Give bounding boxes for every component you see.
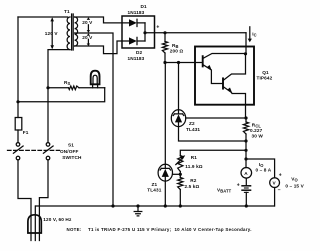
svg-text:F1: F1 [23,130,29,135]
120 V arrow annotation [51,19,53,48]
node rectifier output [143,31,146,34]
ammeter A [241,168,252,179]
lamp pilot light [93,84,98,88]
wire collector feed from rectifier [245,33,247,54]
wire right pole to plug [39,160,48,241]
wire D1/D2 to output node [144,23,146,41]
svg-text:TL431: TL431 [186,127,200,132]
svg-text:Z1: Z1 [152,182,158,187]
wire Z1 cathode drop [164,63,166,165]
svg-text:+: + [156,24,159,30]
svg-text:120 V, 60 Hz: 120 V, 60 Hz [43,217,72,222]
node R_S tap [46,86,49,89]
svg-text:0 – 8 A: 0 – 8 A [256,168,272,173]
svg-text:120 V: 120 V [45,31,59,36]
svg-text:T1 is TRIAD F-275 U 115 V Prim: T1 is TRIAD F-275 U 115 V Primary; 10 A/… [88,227,252,232]
fuse F1 [15,118,22,131]
battery V_BATT [241,185,251,187]
wire output node to R1 [180,150,246,155]
wire top AC line [18,16,68,18]
svg-text:−: − [278,187,281,193]
svg-text:D1: D1 [141,4,148,9]
wire Z2 ref to current sense node [186,117,246,119]
node voltmeter feed [244,157,247,160]
wire left pole to plug [18,160,31,241]
wire secondary top to rectifier [75,17,122,23]
switch S1 left pole [16,143,20,147]
node output + [244,139,247,142]
svg-text:Z2: Z2 [189,121,195,126]
transformer T1 secondary [75,17,78,46]
wire ammeter to battery [245,178,247,186]
svg-text:1N1183: 1N1183 [128,10,145,15]
svg-text:+: + [237,183,240,189]
ground symbol [136,204,139,207]
wire battery to rail [245,192,247,206]
svg-text:TIP642: TIP642 [257,75,273,80]
wire left AC vertical [17,17,19,118]
wire lamp loop return [18,88,105,102]
i_c arrow [249,27,251,40]
resistor R_B [164,33,166,42]
wire below fuse [17,130,19,143]
resistor R_CL [245,118,247,122]
svg-text:NOTE:: NOTE: [67,227,82,232]
svg-text:ON/OFF: ON/OFF [60,149,78,154]
wire rectifier output rail [145,32,246,34]
voltmeter V [270,178,280,188]
node R1 feed [244,149,247,152]
TL431 Z2 [171,110,185,127]
node base/R_B [163,61,166,64]
switch gang dashed link [8,149,60,151]
transistor Q1a [202,56,204,66]
resistor R2 [178,178,183,190]
svg-text:0.227: 0.227 [250,128,263,133]
plug ground prong and rail stub [34,206,36,241]
svg-text:D2: D2 [136,50,143,55]
rectifier box [122,16,155,48]
diode D2 [122,37,145,44]
transformer core [72,14,74,50]
svg-text:1N1183: 1N1183 [128,56,145,61]
wire Z1 ref to divider [173,173,181,175]
node battery/rail [245,204,248,207]
wire primary bottom [48,50,70,143]
svg-text:A: A [244,171,248,176]
node divider tap [179,173,182,176]
svg-text:R2: R2 [190,178,197,183]
20 V arrow upper [87,25,89,30]
node collector [244,52,247,55]
svg-text:20 V: 20 V [82,35,93,40]
svg-text:30 W: 30 W [252,134,264,139]
node center tap return [111,204,114,207]
svg-text:SWITCH: SWITCH [62,155,82,160]
wire center tap down to ground rail [75,33,113,206]
svg-text:T1: T1 [64,9,70,14]
svg-text:iC: iC [252,32,257,38]
svg-text:TL431: TL431 [147,187,161,192]
Q1 box [195,47,254,105]
svg-text:R1: R1 [191,155,198,160]
svg-text:2.5 kΩ: 2.5 kΩ [185,184,200,189]
svg-text:0 – 15 V: 0 – 15 V [285,184,304,189]
transistor Q2 (Q1 output device) [222,78,224,88]
svg-text:Q1: Q1 [262,70,269,75]
plug 120V [28,215,41,233]
svg-text:+: + [279,173,282,179]
node Z1 return [164,204,167,207]
diode D1 [122,19,145,26]
resistor R_S [48,87,69,89]
wire voltmeter to rail [274,188,276,207]
svg-text:200 Ω: 200 Ω [170,48,184,53]
node base/Z2 [177,61,180,64]
node R2 return [179,204,182,207]
svg-text:20 V: 20 V [82,20,93,25]
ground rail [36,205,275,207]
rheostat R1 [178,156,183,172]
node R_B top [163,31,166,34]
20 V arrow lower [87,39,89,43]
wire main output drop to ammeter [245,141,247,168]
node A (lamp branch left junction) [16,100,19,103]
transformer T1 primary [67,17,70,50]
svg-text:11.9 kΩ: 11.9 kΩ [185,164,202,169]
wire Z2 anode to output node [179,127,247,141]
TL431 Z1 [158,164,172,181]
wire secondary bottom to rectifier [75,41,122,54]
node emitter / current sense [244,116,247,119]
wire base rail [165,62,203,64]
wire to voltmeter [246,159,275,178]
switch S1 right pole [46,143,50,147]
svg-text:S1: S1 [68,142,74,147]
wire Z2 drop [178,63,180,110]
